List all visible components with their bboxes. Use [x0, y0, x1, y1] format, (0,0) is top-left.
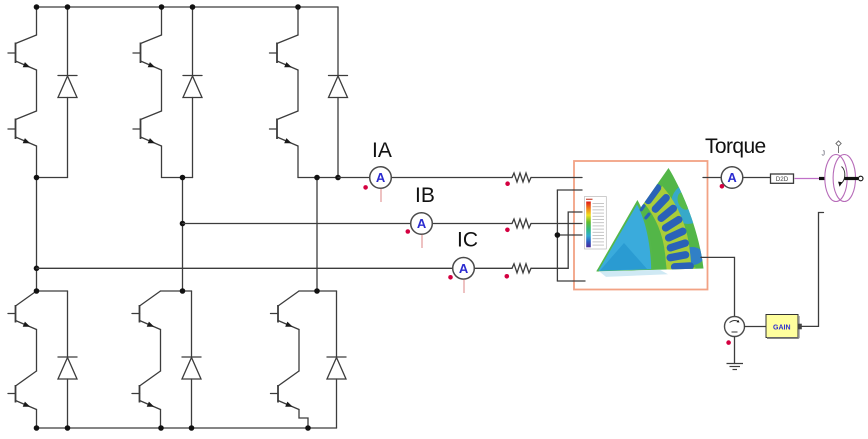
wire: leg4 node row [37, 290, 68, 292]
wire: diode D4 column lower [67, 379, 69, 428]
wire: phase A resistor to motor pin 1 [531, 177, 582, 179]
motor FEM picture: pale bottom strip [599, 270, 668, 277]
node phase C output [34, 175, 40, 181]
wire: gain feedback up to load [802, 213, 824, 327]
wire: phase A riser [316, 178, 318, 292]
load shaft right [844, 177, 858, 180]
svg-text:J: J [822, 151, 826, 158]
colorbar title mark [586, 198, 593, 200]
transistor Q12 [271, 371, 300, 410]
motor FEM picture: bottom-right blue patch [680, 247, 704, 265]
wire: DC- bottom rail [37, 427, 337, 429]
probe dot IC [448, 275, 453, 280]
wire: diode D2 column lower [192, 98, 194, 178]
wire: motor block to torque ammeter [703, 177, 771, 179]
node DC- leg4 D [65, 425, 71, 431]
node DC+ leg1 T [34, 4, 40, 10]
transistor Q3 [133, 35, 162, 70]
resistor RC [512, 264, 531, 273]
load shaft left [819, 177, 828, 180]
motor FEM picture: rotor slot 7 [666, 251, 690, 262]
colorbar gradient bar [586, 202, 591, 248]
transistor Q4 [133, 111, 162, 146]
ground [727, 364, 744, 370]
wire: leg6 node row [299, 290, 337, 292]
svg-text:IA: IA [372, 139, 392, 162]
probe dot torque [720, 184, 725, 189]
motor FEM picture: inner rotor wedge green rim [597, 200, 654, 272]
motor pin stub 6 [573, 280, 585, 282]
mechanical load J (cylinder) [825, 155, 847, 202]
wire: diode D2 column upper [192, 7, 194, 76]
wire: leg2 top interconnect [161, 70, 163, 111]
resistor RB [512, 219, 531, 228]
motor pin stub 5 [573, 234, 582, 236]
wire: leg1 top collector drop [36, 7, 38, 35]
wire: leg5 emitter to rail [160, 410, 162, 429]
junction dot star point [555, 232, 561, 238]
wire: leg5 node row [161, 290, 192, 292]
node DC+ leg2 D [190, 4, 196, 10]
svg-text:IC: IC [457, 228, 478, 251]
motor FEM picture: slot fragments near peak [639, 204, 646, 212]
wire: leg3 output row [298, 177, 338, 179]
probe dot RA [505, 181, 510, 186]
motor FEM picture: green blob in teal patch [675, 190, 692, 211]
node DC- leg5 T [158, 425, 164, 431]
wire: star point pin 5 [557, 234, 582, 236]
wire: DC+ top rail [37, 6, 339, 8]
motor FEM picture: rotor slot 3 [656, 203, 679, 223]
wire: leg6 interconnect [298, 330, 300, 372]
wire: diode D6 column upper [336, 291, 338, 357]
node phase A output [314, 175, 320, 181]
probe dot RB [505, 228, 510, 233]
wire: phase A to ammeter [338, 177, 512, 179]
flag marker phi [836, 141, 841, 153]
block D2D [771, 174, 794, 183]
motor FEM picture: rotor slot 8 [671, 262, 694, 271]
diode D3 [329, 76, 348, 98]
transistor Q5 [270, 35, 299, 70]
node DC- leg4 T [34, 425, 40, 431]
motor FEM picture: rotor slot 1 [643, 183, 663, 206]
wire: diode D4 column upper [67, 291, 69, 357]
wire: leg5 interconnect [160, 330, 162, 372]
wire: diode D5 column upper [191, 291, 193, 357]
wire: leg3 top emitter to output [297, 146, 299, 178]
transistor Q10 [132, 371, 161, 410]
wire: phase C resistor then up to motor pin 3 [531, 212, 582, 268]
gain output nub [798, 324, 802, 330]
motor FEM picture: rotor slot 6 [666, 238, 690, 252]
motor pin stub 4 [573, 223, 582, 225]
ammeter IB [411, 213, 433, 235]
diode D2 [183, 76, 202, 98]
probe dot IB [406, 229, 411, 234]
colorbar legend box [585, 197, 607, 250]
svg-text:D2D: D2D [776, 176, 789, 183]
motor FEM picture: rotor slot 4 [660, 214, 683, 233]
wire: motor block speed pin out [701, 257, 735, 316]
diode D6 [327, 357, 346, 379]
motor pin stub 1 [573, 177, 582, 179]
transistor Q9 [132, 291, 161, 330]
wire: leg1 top interconnect [36, 70, 38, 111]
probe dot RC [505, 274, 510, 279]
node leg6 top [314, 288, 320, 294]
probe dot IA [363, 185, 368, 190]
motor pin stub 3 [573, 211, 582, 213]
load rotation arrow [840, 167, 845, 185]
wire: leg6 emitter jog to rail [299, 410, 308, 429]
node phase A diode join [335, 175, 341, 181]
diode D5 [182, 357, 201, 379]
wire: leg3 top interconnect [297, 70, 299, 111]
probe tick IB [421, 235, 423, 248]
gain block GAIN [766, 315, 798, 338]
node DC- leg5 D [189, 425, 195, 431]
wire: star point vertical [556, 190, 558, 281]
wire: leg4 interconnect [36, 330, 38, 372]
wire: leg4 emitter to rail [36, 410, 38, 429]
node leg4 top [34, 288, 40, 294]
wire: source to ground [734, 337, 736, 364]
wire: phase C to ammeter [37, 267, 513, 269]
node phase C tap [34, 266, 40, 272]
wire: leg1 output row [37, 177, 68, 179]
node phase B tap [180, 221, 186, 227]
wire: phase B resistor to motor pin 4 [531, 223, 582, 225]
wire: star point to bottom pin [557, 280, 585, 282]
wire: leg2 top emitter to output [161, 146, 163, 178]
colorbar tick labels [593, 204, 605, 246]
wire: leg2 output row [162, 177, 193, 179]
motor FEM picture: inner rotor wedge cyan [599, 205, 652, 271]
transistor Q8 [8, 371, 37, 410]
wire: leg2 top collector drop [161, 7, 163, 35]
resistor RA [512, 173, 531, 182]
transistor Q6 [270, 111, 299, 146]
wire: D2D to load (mechanical link) [795, 178, 822, 180]
motor FEM picture: outer stator wedge [597, 168, 704, 272]
motor FEM picture: deep blue lower region [600, 243, 647, 271]
load terminal circle [858, 176, 863, 181]
wire: diode D6 column lower [336, 379, 338, 428]
wire: diode D3 column upper [337, 7, 339, 76]
ammeter Torque [721, 167, 743, 189]
motor block U1 frame [574, 161, 708, 290]
motor FEM picture: rotor slot 2 [650, 193, 671, 215]
wire: phase B riser [182, 178, 184, 292]
wire: diode D5 column lower [191, 379, 193, 428]
wire: leg1 top emitter to output [36, 146, 38, 178]
transistor Q7 [8, 291, 37, 330]
node DC+ leg2 T [159, 4, 165, 10]
node phase B output [180, 175, 186, 181]
wire: source to gain input [745, 326, 767, 328]
svg-text:IB: IB [415, 184, 435, 207]
probe dot source [726, 340, 731, 345]
node leg5 top [180, 288, 186, 294]
diode D4 [58, 357, 77, 379]
motor FEM picture: rotor slot 5 [664, 226, 688, 242]
wire: leg3 top collector drop [297, 7, 299, 35]
wire: star point pin 2 [557, 189, 582, 191]
wire: diode D3 column lower [337, 98, 339, 178]
probe tick IA [380, 189, 382, 202]
node DC+ leg1 D [65, 4, 71, 10]
transistor Q2 [8, 111, 37, 146]
wire: diode D1 column upper [67, 7, 69, 76]
motor FEM picture: teal upper-right patch [671, 184, 705, 224]
ammeter IC [453, 258, 475, 280]
motor FEM picture: yellow-green slot band [653, 194, 683, 277]
ammeter IA [370, 167, 392, 189]
node DC- leg6 T [305, 425, 311, 431]
probe tick IC [463, 280, 465, 293]
wire: phase B to ammeter [183, 223, 513, 225]
wire: diode D1 column lower [67, 98, 69, 178]
wire: phase C riser [36, 178, 38, 292]
diode D1 [58, 76, 77, 98]
svg-text:Torque: Torque [705, 135, 766, 158]
node DC+ leg3 T [295, 4, 301, 10]
controlled source W [725, 317, 745, 337]
motor pin stub 2 [573, 189, 582, 191]
transistor Q1 [8, 35, 37, 70]
transistor Q11 [271, 291, 300, 330]
svg-text:GAIN: GAIN [773, 325, 791, 332]
